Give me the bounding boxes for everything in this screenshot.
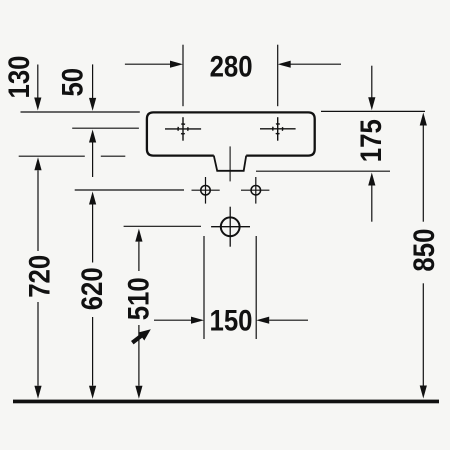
tap hole right xyxy=(260,117,296,141)
svg-text:720: 720 xyxy=(23,255,56,298)
dimension 280 xyxy=(125,45,341,106)
floor line xyxy=(13,400,439,404)
extension line basin underside xyxy=(256,170,390,172)
extension line basin bottom xyxy=(19,155,85,157)
svg-text:280: 280 xyxy=(210,50,253,83)
drain hole xyxy=(211,207,250,247)
dimension 175 xyxy=(368,66,375,222)
svg-text:620: 620 xyxy=(75,267,108,310)
dimension 720 xyxy=(34,157,41,398)
svg-text:175: 175 xyxy=(354,119,387,162)
dimension 620 xyxy=(89,192,96,399)
dimension 850 xyxy=(420,113,427,399)
dimension 130 xyxy=(34,65,41,111)
extension line fixing level xyxy=(75,189,184,191)
svg-text:130: 130 xyxy=(2,55,35,98)
fixing hole left xyxy=(192,177,220,204)
centerline xyxy=(229,146,231,181)
extension line tap level xyxy=(72,127,139,129)
direction arrow xyxy=(132,329,151,343)
svg-text:850: 850 xyxy=(407,229,440,272)
svg-text:510: 510 xyxy=(122,277,155,320)
extension line rim-top right xyxy=(321,110,425,112)
dimension 50 xyxy=(89,64,96,177)
svg-text:50: 50 xyxy=(56,68,89,97)
extension line rim-top left xyxy=(21,111,140,113)
washbasin outline xyxy=(147,112,315,155)
dimension 510 xyxy=(135,229,142,399)
drain trapezoid xyxy=(214,156,246,171)
fixing hole right xyxy=(241,177,269,204)
tap hole left xyxy=(165,117,201,141)
svg-text:150: 150 xyxy=(209,304,252,337)
dimension 150 xyxy=(154,236,308,339)
extension line drain level xyxy=(124,225,201,227)
